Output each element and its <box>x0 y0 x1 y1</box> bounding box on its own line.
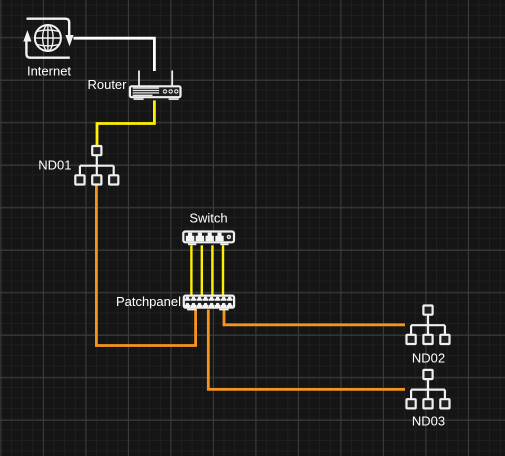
svg-text:Switch: Switch <box>189 211 227 226</box>
wire yellow Switch-Patchpanel 4 <box>222 245 224 294</box>
node ND03 <box>407 370 450 409</box>
node ND01 <box>75 146 118 185</box>
svg-text:ND01: ND01 <box>38 157 71 172</box>
top-right arrow line <box>27 19 70 35</box>
stripes <box>133 88 159 95</box>
patchpanel PP1 <box>184 296 234 311</box>
internet icon down arrowhead <box>65 35 73 46</box>
svg-text:ND03: ND03 <box>412 414 445 429</box>
wire yellow Router-ND01 <box>97 100 154 145</box>
wire yellow Switch-Patchpanel 1 <box>190 245 192 294</box>
router R1 <box>130 71 181 100</box>
svg-text:Patchpanel: Patchpanel <box>116 294 181 309</box>
antennas <box>139 71 172 85</box>
svg-text:Router: Router <box>87 77 127 92</box>
node ND02 <box>407 306 450 345</box>
internet icon globe <box>35 25 61 51</box>
svg-text:ND02: ND02 <box>412 351 445 366</box>
wire orange Patchpanel-ND03 <box>208 310 405 390</box>
feet <box>134 98 144 100</box>
switch SW1 <box>183 232 234 246</box>
wire orange Patchpanel-ND02 <box>224 310 405 325</box>
body <box>130 86 181 97</box>
wire yellow Switch-Patchpanel 2 <box>201 245 203 294</box>
svg-text:Internet: Internet <box>27 64 71 79</box>
bottom-left arrow line <box>26 42 69 58</box>
wire orange ND01-Patchpanel <box>96 185 195 346</box>
wire white Internet-Router <box>74 38 155 71</box>
leds <box>163 89 167 93</box>
internet icon arrows <box>26 19 69 58</box>
internet icon up arrowhead <box>23 30 31 41</box>
wire yellow Switch-Patchpanel 3 <box>211 245 213 294</box>
